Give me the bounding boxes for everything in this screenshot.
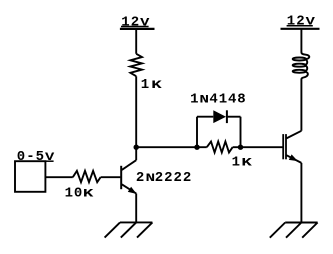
svg-text:V: V — [306, 16, 316, 29]
resistor R2 1K (horizontal) — [207, 142, 233, 153]
transistor Q2 drain diagonal — [286, 131, 301, 139]
svg-text:12: 12 — [121, 14, 139, 30]
transistor Q2 source diagonal — [286, 155, 301, 163]
label 0-5V (input) — [17, 149, 55, 165]
power label 12V (left) underline — [121, 26, 149, 28]
svg-text:K: K — [83, 188, 94, 200]
transistor Q2 gate bar — [282, 134, 284, 159]
transistor Q2 channel bar — [285, 134, 287, 159]
svg-text:1: 1 — [190, 92, 198, 108]
svg-text:V: V — [140, 17, 150, 30]
ground symbol (left) — [105, 222, 153, 237]
label 12V (right) — [287, 14, 316, 30]
node: right junction dot of parallel RC — [238, 145, 243, 150]
svg-text:N: N — [199, 94, 209, 107]
label 2N2222 (Q1) — [136, 170, 191, 186]
label 1K (R2) — [232, 155, 252, 171]
wire: diode branch top right — [227, 116, 241, 118]
inductor L1 right connectors — [306, 60, 307, 65]
power rail bar 12V (left) — [120, 28, 155, 30]
svg-text:K: K — [241, 157, 252, 169]
transistor Q1 2N2222 base bar — [120, 166, 122, 189]
svg-text:2222: 2222 — [155, 170, 192, 186]
transistor Q2 source arrow — [289, 154, 298, 161]
wire: R2 to gate of Q2 — [233, 146, 283, 148]
svg-text:4148: 4148 — [209, 92, 245, 108]
input source box 0-5V — [15, 161, 45, 192]
svg-text:1: 1 — [232, 155, 240, 171]
transistor Q1 emitter diagonal — [122, 184, 136, 193]
label 1K (R1) — [141, 77, 162, 93]
transistor Q1 emitter arrow — [128, 187, 137, 194]
svg-text:12: 12 — [287, 14, 305, 30]
label 12V (left) — [121, 14, 150, 30]
transistor Q1 collector diagonal — [122, 160, 136, 170]
input label 0-5V underline — [45, 160, 53, 162]
svg-text:2: 2 — [136, 170, 144, 186]
wire: left rail to R1 top — [135, 29, 137, 54]
wire: Q2 source to ground — [300, 163, 302, 223]
wire: diode branch top left — [197, 116, 213, 118]
svg-text:V: V — [45, 152, 55, 165]
ground symbol (right) — [270, 223, 318, 238]
wire: diode branch left vertical — [196, 117, 198, 148]
label 1N4148 (D1) — [190, 92, 246, 108]
node: left junction dot of parallel RC — [194, 145, 199, 150]
wire: inductor to Q2 drain — [300, 79, 302, 131]
wire: diode branch right vertical — [240, 117, 242, 148]
power label 12V (right) underline — [287, 25, 313, 27]
wire: Q1 emitter to ground — [135, 194, 137, 223]
inductor L1 coil loops — [293, 58, 306, 61]
wire: right rail to inductor — [300, 29, 302, 53]
diode D1 1N4148 triangle — [213, 110, 226, 123]
inductor L1 entry hook — [301, 52, 309, 59]
wire: R3 to Q1 base — [101, 176, 121, 178]
inductor L1 exit hook — [301, 72, 307, 79]
wire: collector node to parallel network — [136, 146, 207, 148]
power rail bar 12V (right) — [281, 28, 320, 30]
label 10K (R3) — [65, 186, 94, 202]
wire: source box to R3 — [45, 176, 72, 178]
svg-text:10: 10 — [65, 186, 83, 202]
svg-text:0-5: 0-5 — [17, 149, 44, 165]
svg-text:1: 1 — [141, 77, 149, 93]
diode D1 cathode bar — [226, 110, 228, 123]
wire: Q1 collector up to node — [135, 147, 137, 160]
resistor R1 1K (vertical) — [130, 54, 142, 76]
resistor R3 10K (horizontal) — [73, 171, 101, 182]
node: collector junction dot — [134, 145, 139, 150]
svg-text:K: K — [151, 80, 162, 92]
wire: R1 bottom to collector node — [135, 76, 137, 147]
